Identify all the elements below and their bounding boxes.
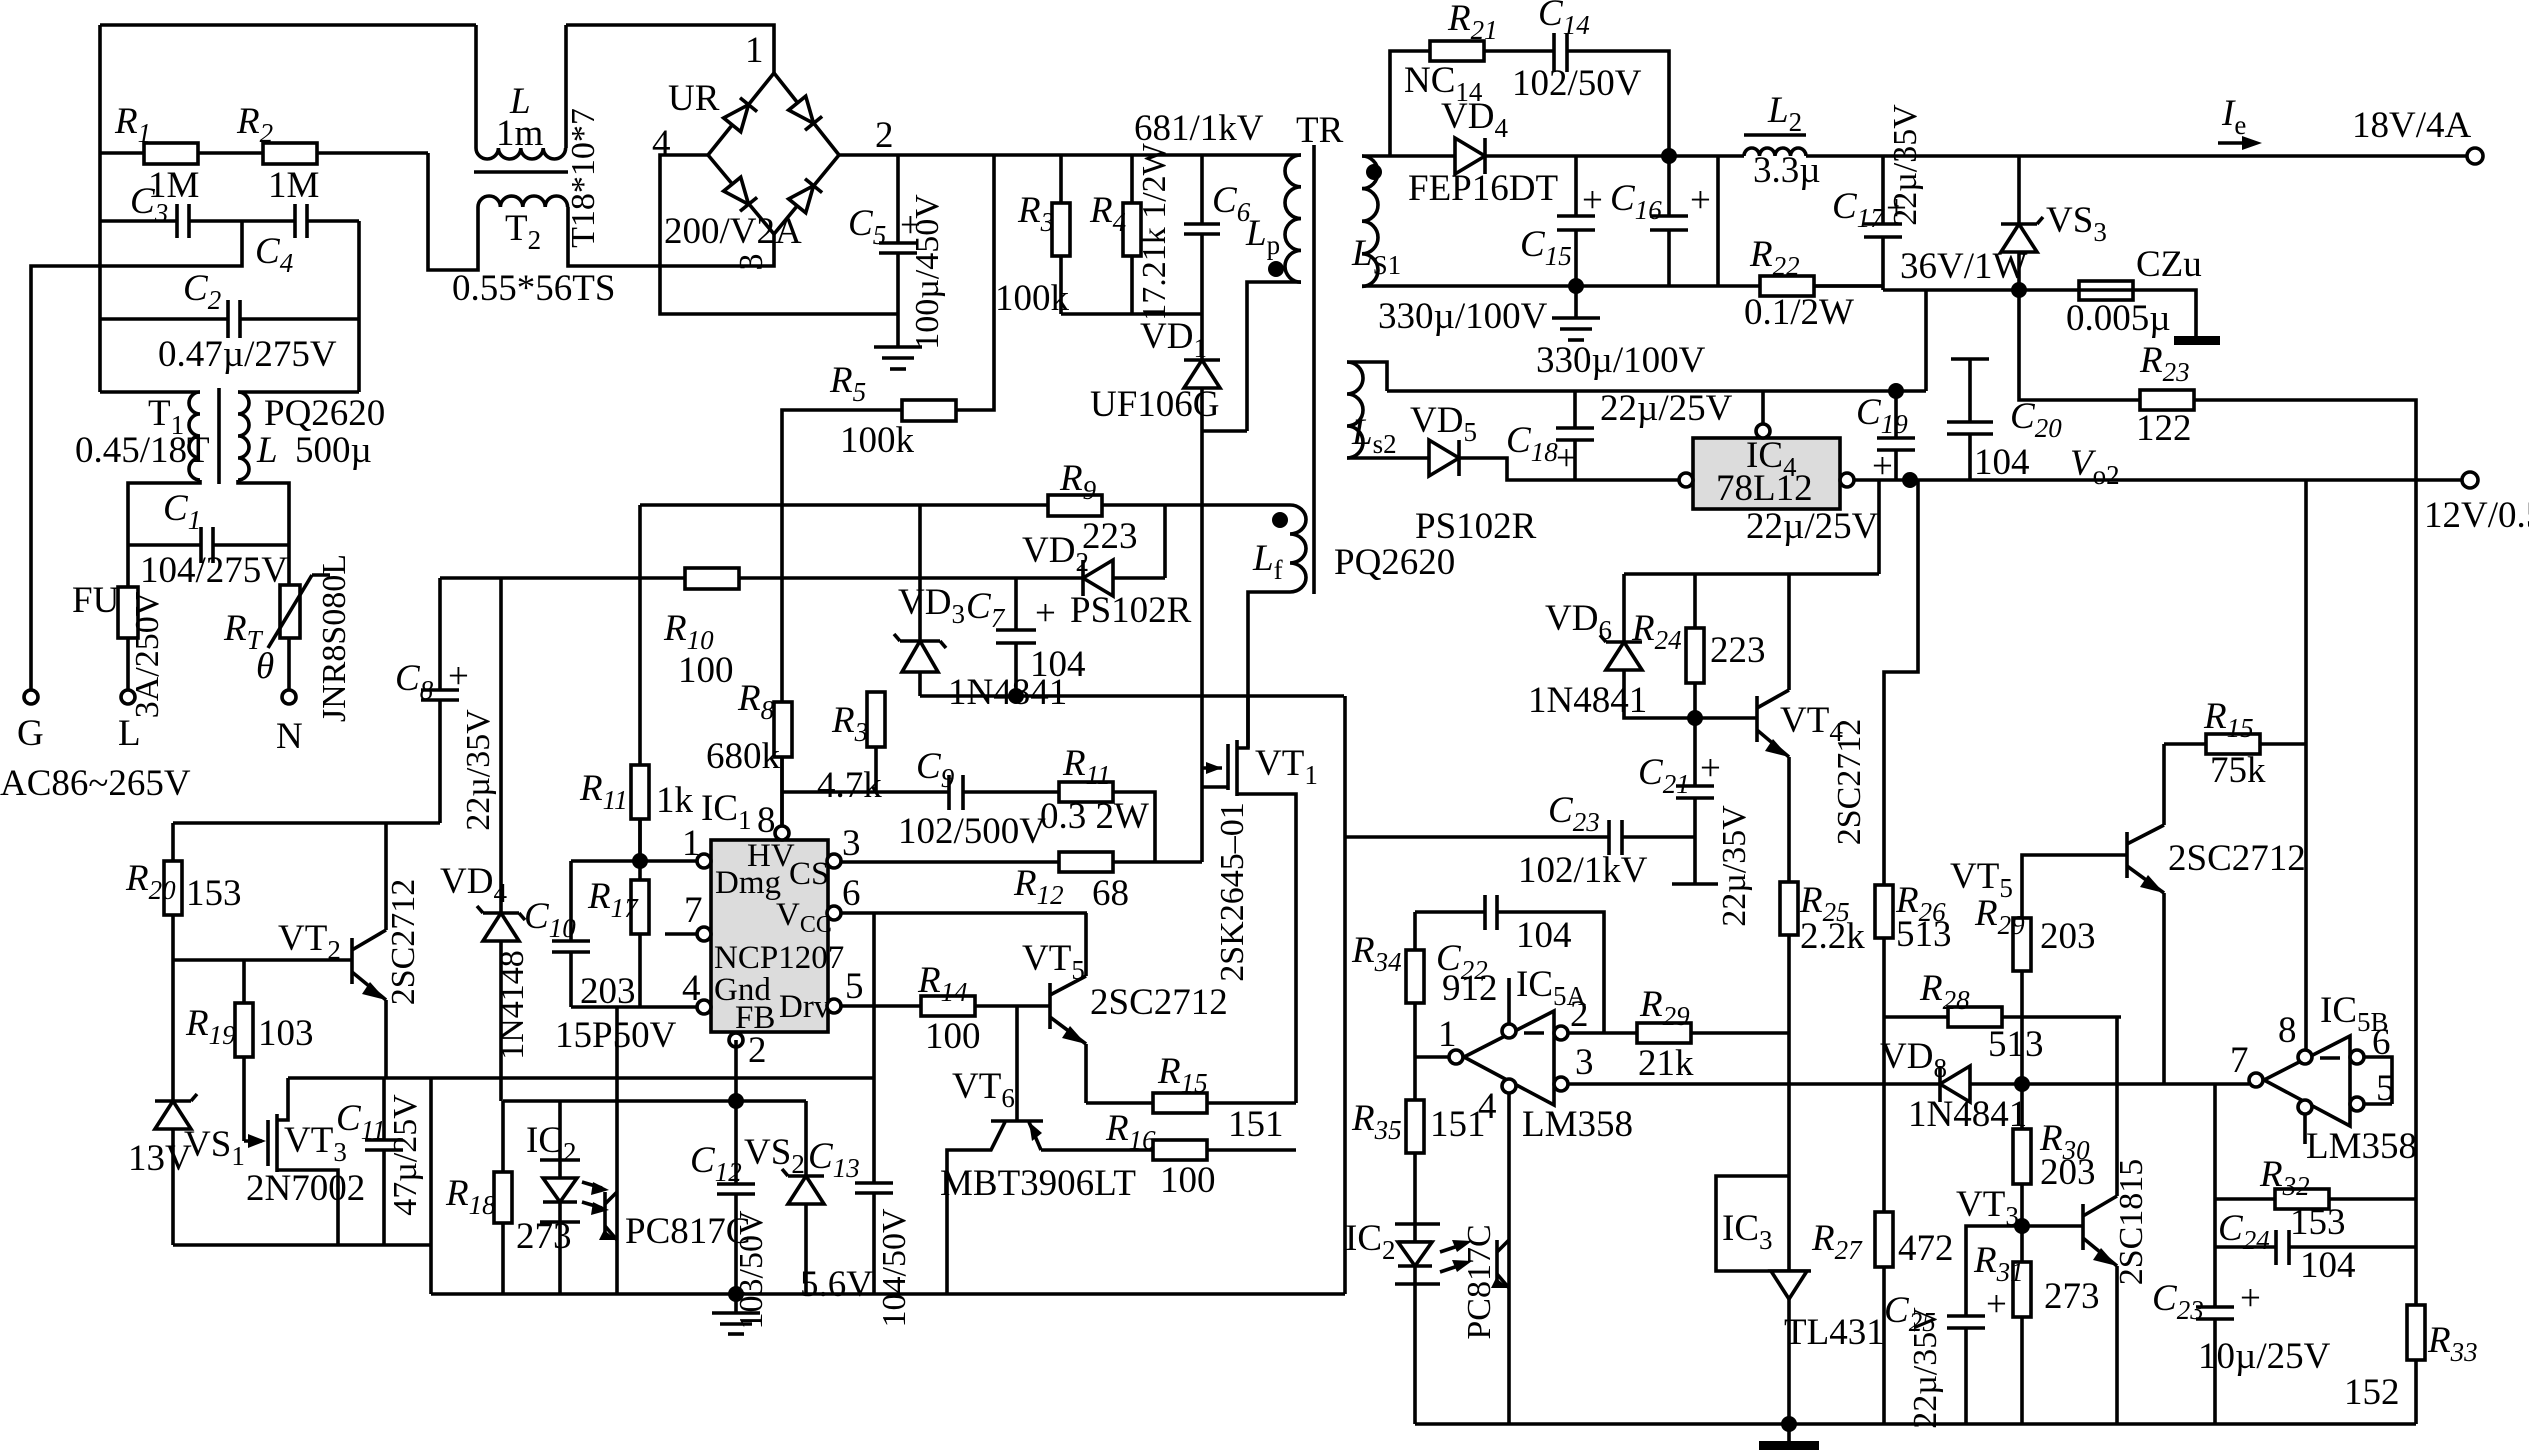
svg-text:104/275V: 104/275V bbox=[140, 550, 288, 591]
resistor R18 273 bbox=[494, 1172, 512, 1223]
svg-text:1: 1 bbox=[682, 823, 701, 864]
svg-text:FU: FU bbox=[72, 580, 119, 621]
svg-text:22µ/35V: 22µ/35V bbox=[1907, 1307, 1944, 1429]
svg-text:102/1kV: 102/1kV bbox=[1518, 850, 1648, 891]
wire Vcc row bbox=[841, 911, 1087, 915]
inductor L (1m) bbox=[476, 148, 566, 159]
inductor L2 bbox=[1744, 133, 1806, 137]
svg-text:2SC1815: 2SC1815 bbox=[2113, 1159, 2150, 1286]
resistor R33 152 bbox=[2407, 1305, 2425, 1360]
thermistor RT bbox=[287, 545, 291, 585]
wire R3 R4 C6 bottom row bbox=[1061, 312, 1202, 316]
svg-text:1M: 1M bbox=[268, 165, 319, 206]
wire L right rise bbox=[564, 25, 568, 148]
wire R26 column from 12V rail bbox=[1884, 480, 1918, 885]
svg-text:1: 1 bbox=[745, 30, 764, 71]
svg-text:θ: θ bbox=[256, 646, 274, 687]
capacitor C4 bbox=[293, 204, 297, 238]
capacitor C1 bbox=[128, 543, 201, 547]
wire VT4 top line bbox=[1624, 572, 1879, 576]
resistor R30 203 bbox=[2020, 1084, 2024, 1129]
wire top rail left bbox=[100, 23, 476, 27]
IC4 78L12 box bbox=[1693, 438, 1840, 509]
diode UR bottom-left bbox=[724, 177, 757, 211]
svg-text:100k: 100k bbox=[995, 278, 1070, 319]
pin 3 bbox=[827, 854, 841, 868]
svg-text:100: 100 bbox=[678, 650, 734, 691]
resistor R15b 75k bbox=[2164, 742, 2206, 746]
svg-text:330µ/100V: 330µ/100V bbox=[1536, 340, 1706, 381]
svg-text:100µ/450V: 100µ/450V bbox=[909, 194, 946, 350]
svg-text:1N4841: 1N4841 bbox=[1528, 680, 1647, 721]
ground right block bbox=[1787, 1424, 1791, 1441]
capacitor C23b 10u/25V bbox=[2196, 1305, 2234, 1309]
wire VD3 C7 bottom row bbox=[920, 694, 1344, 698]
capacitor C22 104 bbox=[1483, 895, 1487, 930]
diode VD4 FEP16DT bbox=[1455, 138, 1485, 174]
svg-text:1k: 1k bbox=[656, 780, 694, 821]
resistor R23 bbox=[2019, 290, 2140, 400]
inductor T2 winding bbox=[478, 196, 568, 207]
capacitor C11 bbox=[382, 1078, 386, 1140]
resistor R8 680k bbox=[774, 702, 792, 757]
resistor R34 912 bbox=[1413, 912, 1417, 950]
svg-text:203: 203 bbox=[2040, 916, 2096, 957]
svg-text:330µ/100V: 330µ/100V bbox=[1378, 296, 1548, 337]
capacitor C25 polarized bbox=[1966, 1226, 2022, 1316]
transistor VT5 2SC2712 bbox=[1048, 983, 1052, 1029]
capacitor C15 polarized bbox=[1574, 156, 1578, 216]
wire bridge node3 bbox=[660, 234, 774, 266]
svg-text:LM358: LM358 bbox=[1522, 1104, 1633, 1145]
svg-text:JNR8S080L: JNR8S080L bbox=[316, 554, 353, 722]
fuse FU bbox=[126, 545, 130, 587]
capacitor C7 bbox=[1014, 578, 1018, 630]
wire VD2 branch vertical bbox=[1163, 505, 1167, 578]
resistor R2 bbox=[263, 143, 317, 164]
resistor R35 151 bbox=[1406, 1100, 1424, 1153]
wire pin6 loop bbox=[2364, 1057, 2392, 1104]
svg-text:2SC2712: 2SC2712 bbox=[1831, 719, 1868, 846]
transistor VT3b 2SC1815 bbox=[2022, 1224, 2083, 1228]
ground left block bbox=[734, 1294, 738, 1313]
svg-text:2SK2645–01: 2SK2645–01 bbox=[1214, 802, 1251, 981]
inductor Lp winding bbox=[1299, 153, 1301, 157]
wire earth branch node bbox=[31, 221, 242, 690]
svg-text:18V/4A: 18V/4A bbox=[2352, 105, 2472, 146]
resistor R9 bbox=[640, 503, 1048, 507]
svg-text:5: 5 bbox=[845, 966, 864, 1007]
wire pin5 row bbox=[2364, 1102, 2392, 1106]
wire lower rail to CZu bbox=[1883, 288, 2079, 292]
svg-text:151: 151 bbox=[1228, 1104, 1284, 1145]
wire pin4 row bbox=[571, 1005, 697, 1009]
svg-text:3.3µ: 3.3µ bbox=[1753, 150, 1821, 191]
wire C-row to C2-row right vertical bbox=[357, 221, 361, 392]
wire down jog to opto bbox=[429, 1078, 433, 1294]
wire 22u line right end up to lower rail bbox=[1924, 290, 1928, 391]
capacitor C6 bbox=[1200, 155, 1204, 224]
svg-text:102/500V: 102/500V bbox=[898, 811, 1046, 852]
svg-text:22µ/25V: 22µ/25V bbox=[1746, 506, 1879, 547]
svg-text:UR: UR bbox=[668, 78, 720, 119]
svg-text:5.6V: 5.6V bbox=[800, 1264, 873, 1305]
svg-text:7: 7 bbox=[2230, 1040, 2249, 1081]
svg-text:22µ/25V: 22µ/25V bbox=[1600, 388, 1733, 429]
ground below C5 bbox=[896, 314, 900, 347]
capacitor C14 bbox=[1552, 33, 1556, 72]
svg-text:203: 203 bbox=[2040, 1152, 2096, 1193]
svg-text:21k: 21k bbox=[1638, 1043, 1694, 1084]
wire VT2 top rail bbox=[173, 821, 440, 825]
wire pin1 to R34 R35 bbox=[1415, 1055, 1449, 1059]
capacitor C24 104 bbox=[2215, 1245, 2276, 1249]
wire pin3 row long bbox=[1568, 1082, 1940, 1086]
svg-text:912: 912 bbox=[1442, 968, 1498, 1009]
svg-text:6: 6 bbox=[842, 873, 861, 914]
svg-text:3: 3 bbox=[733, 254, 770, 271]
svg-text:3: 3 bbox=[1575, 1042, 1594, 1083]
wire R22 branch bbox=[1716, 156, 1720, 286]
svg-text:500µ: 500µ bbox=[295, 430, 372, 471]
inductor Ls2 winding bbox=[1347, 362, 1363, 458]
resistor R3b 4.7k bbox=[874, 692, 878, 696]
svg-text:PC817C: PC817C bbox=[625, 1211, 750, 1252]
svg-text:8: 8 bbox=[2278, 1010, 2297, 1051]
svg-text:AC86~265V: AC86~265V bbox=[0, 763, 191, 804]
svg-text:2: 2 bbox=[875, 115, 894, 156]
svg-text:100k: 100k bbox=[840, 420, 915, 461]
svg-text:PC817C: PC817C bbox=[1461, 1224, 1498, 1339]
capacitor C9 bbox=[947, 775, 951, 810]
resistor R14 100 bbox=[841, 1004, 921, 1008]
svg-text:+: + bbox=[1700, 748, 1721, 789]
diode VD3 zener 1N4841 bbox=[900, 639, 940, 643]
chassis bar CZu bbox=[2174, 336, 2220, 345]
svg-text:FEP16DT: FEP16DT bbox=[1408, 168, 1558, 209]
svg-text:513: 513 bbox=[1988, 1024, 2044, 1065]
transistor VT5b 2SC2712 bbox=[2125, 832, 2129, 878]
pin 6 bbox=[827, 906, 841, 920]
ground secondary bbox=[1574, 286, 1578, 318]
wire R21 C14 loop left bbox=[1390, 51, 1430, 156]
optocoupler IC2 PC817C bbox=[503, 1099, 621, 1103]
diode VS2 zener 5.6V bbox=[804, 1101, 808, 1176]
diode VD4b 1N4148 bbox=[499, 578, 503, 913]
resistor R26 513 bbox=[1875, 885, 1893, 938]
wire Lp bottom jog bbox=[1202, 429, 1247, 433]
transistor VT6 MBT3906LT bbox=[1015, 1006, 1019, 1121]
wire T1 bottom left to C1 bbox=[128, 480, 200, 545]
resistor R16 100 bbox=[1041, 1148, 1153, 1152]
wire bridge node2 to HT rail bbox=[839, 153, 1299, 157]
wire L left drop bbox=[474, 25, 478, 148]
terminal N bbox=[282, 690, 296, 704]
svg-text:+: + bbox=[1556, 438, 1577, 479]
svg-text:1N4841: 1N4841 bbox=[1908, 1094, 2027, 1135]
diode VD2 PS102R bbox=[1081, 560, 1085, 596]
wire pin7 row bbox=[2215, 1082, 2249, 1086]
wire pin8 top bbox=[780, 757, 784, 826]
svg-text:104: 104 bbox=[1974, 442, 2030, 483]
op-amp IC5B LM358 bbox=[2264, 1036, 2350, 1126]
transistor VT4 2SC2712 bbox=[1755, 696, 1759, 742]
wire top rail to bridge bbox=[566, 25, 774, 73]
resistor R11b 0.3 2W bbox=[1059, 782, 1113, 802]
wire bottom rail left block bbox=[431, 1292, 1345, 1296]
wire FB row bbox=[621, 1099, 806, 1103]
svg-text:CS: CS bbox=[789, 856, 829, 892]
svg-text:68: 68 bbox=[1092, 873, 1129, 914]
IC3 TL431 bbox=[1716, 1176, 1789, 1271]
svg-text:0.45/18T: 0.45/18T bbox=[75, 430, 210, 471]
resistor R1 bbox=[100, 151, 144, 155]
wire 18V rail bbox=[1883, 154, 2468, 158]
svg-text:513: 513 bbox=[1896, 914, 1952, 955]
transformer T1 core bbox=[217, 388, 221, 484]
secondary: Ls1 winding bbox=[1362, 156, 1378, 286]
inductor Lf winding bbox=[1290, 505, 1306, 592]
svg-text:36V/1W: 36V/1W bbox=[1900, 246, 2028, 287]
svg-text:152: 152 bbox=[2344, 1372, 2400, 1413]
pin 8 bbox=[775, 826, 789, 840]
wire R9 left vertical to IC1 pin1 row bbox=[638, 505, 642, 862]
svg-text:L: L bbox=[118, 713, 141, 754]
wire pin2 FB column bbox=[734, 1040, 738, 1184]
svg-text:22µ/35V: 22µ/35V bbox=[1887, 104, 1924, 226]
svg-text:100: 100 bbox=[925, 1016, 981, 1057]
svg-text:TR: TR bbox=[1296, 110, 1344, 151]
pin 5 bbox=[827, 999, 841, 1013]
svg-text:UF106G: UF106G bbox=[1090, 384, 1220, 425]
svg-text:PQ2620: PQ2620 bbox=[264, 393, 385, 434]
wire T2 right end to bridge node 4 bbox=[568, 207, 660, 266]
resistor R15 151 bbox=[1086, 1101, 1153, 1105]
capacitor C10 bbox=[569, 861, 573, 941]
fuse CZu bbox=[2079, 281, 2133, 300]
svg-text:7: 7 bbox=[684, 890, 703, 931]
svg-text:104: 104 bbox=[1516, 915, 1572, 956]
wire VT block bottom rail bbox=[173, 1243, 431, 1247]
diode UR top-left bbox=[724, 98, 757, 132]
svg-text:472: 472 bbox=[1898, 1228, 1954, 1269]
svg-text:2N7002: 2N7002 bbox=[246, 1168, 365, 1209]
svg-text:+: + bbox=[1582, 180, 1603, 221]
resistor R29 21k bbox=[1568, 1031, 1637, 1035]
wire T1 bottom right to C1 right bbox=[238, 480, 289, 545]
optocoupler IC2b PC817C bbox=[1413, 1224, 1417, 1424]
svg-text:2: 2 bbox=[1570, 994, 1589, 1035]
wire pin4 down bbox=[1507, 1093, 1511, 1424]
wire IC4 out to 12V bbox=[1854, 478, 2462, 482]
diode VS1 zener 13V bbox=[155, 1099, 191, 1103]
svg-text:104: 104 bbox=[1030, 644, 1086, 685]
terminal 18V bbox=[2467, 148, 2483, 164]
svg-text:N: N bbox=[276, 716, 303, 757]
svg-text:200/V2A: 200/V2A bbox=[664, 211, 802, 252]
svg-text:122: 122 bbox=[2136, 408, 2192, 449]
svg-text:47µ/25V: 47µ/25V bbox=[387, 1094, 424, 1216]
resistor R4 bbox=[1130, 155, 1134, 203]
svg-text:680k: 680k bbox=[706, 736, 781, 777]
capacitor C13 bbox=[872, 913, 876, 1183]
wire rail to L2 bbox=[1669, 154, 1744, 158]
svg-text:0.47µ/275V: 0.47µ/275V bbox=[158, 334, 337, 375]
svg-text:22µ/35V: 22µ/35V bbox=[1716, 805, 1753, 927]
svg-text:0.55*56TS: 0.55*56TS bbox=[452, 268, 615, 309]
svg-text:PQ2620: PQ2620 bbox=[1334, 542, 1455, 583]
T2 core bar bbox=[474, 170, 568, 174]
svg-text:151: 151 bbox=[1430, 1104, 1486, 1145]
svg-text:4: 4 bbox=[682, 968, 701, 1009]
wire left vertical main bbox=[98, 25, 102, 392]
resistor R3 100k bbox=[1059, 155, 1063, 203]
wire 22u25V top line bbox=[1387, 389, 1926, 393]
capacitor C18 polarized bbox=[1573, 391, 1577, 428]
svg-text:10µ/25V: 10µ/25V bbox=[2198, 1336, 2331, 1377]
resistor R5 bbox=[956, 155, 994, 410]
capacitor C21 polarized bbox=[1676, 784, 1714, 788]
phototransistor IC2b bbox=[1495, 1240, 1499, 1286]
resistor R31 273 bbox=[2020, 1226, 2024, 1262]
wire pin8 column bbox=[2304, 480, 2308, 1050]
svg-text:+: + bbox=[448, 656, 469, 697]
svg-text:75k: 75k bbox=[2210, 750, 2266, 791]
node dot rail C14 bbox=[1661, 148, 1677, 164]
svg-text:+: + bbox=[1986, 1284, 2007, 1325]
svg-text:G: G bbox=[17, 713, 44, 754]
transformer T1 left winding bbox=[189, 392, 200, 480]
resistor R19 103 bbox=[242, 960, 246, 1003]
capacitor C17 polarized bbox=[1881, 156, 1885, 224]
diode VD1 UF106G bbox=[1200, 314, 1204, 360]
svg-text:100: 100 bbox=[1160, 1160, 1216, 1201]
svg-text:8: 8 bbox=[757, 800, 776, 841]
capacitor C12 bbox=[717, 1182, 755, 1186]
diode UR bottom-right bbox=[789, 179, 822, 213]
svg-text:13V: 13V bbox=[128, 1138, 192, 1179]
resistor R29b 203 bbox=[2022, 855, 2127, 918]
pin 1 bbox=[697, 854, 711, 868]
svg-text:3: 3 bbox=[842, 823, 861, 864]
wire bottom rail right block bbox=[1415, 1422, 2416, 1426]
svg-text:L: L bbox=[256, 430, 278, 471]
svg-text:+: + bbox=[1872, 446, 1893, 487]
svg-text:17.21k 1/2W: 17.21k 1/2W bbox=[1136, 142, 1173, 320]
wire Ls1 top to VD4 bbox=[1362, 154, 1455, 158]
svg-text:0.005µ: 0.005µ bbox=[2066, 298, 2171, 339]
wire 4.7k C9 row bbox=[782, 790, 949, 794]
resistor R27 472 bbox=[1875, 1212, 1893, 1267]
transformer T1 right winding bbox=[238, 392, 249, 480]
bar C21 bottom bbox=[1672, 882, 1718, 886]
svg-text:2SC2712: 2SC2712 bbox=[1090, 982, 1228, 1023]
wire C23 takeoff bbox=[1343, 696, 1347, 1294]
svg-text:104/50V: 104/50V bbox=[876, 1208, 913, 1327]
wire emitter C11 row bbox=[288, 1076, 874, 1080]
svg-text:LM358: LM358 bbox=[2306, 1126, 2417, 1167]
pin 4 bbox=[697, 1000, 711, 1014]
diode VD5 PS102R bbox=[1347, 456, 1429, 460]
pin 2 bbox=[729, 1033, 743, 1047]
capacitor C16 polarized bbox=[1650, 214, 1688, 218]
bridge rectifier UR diamond bbox=[708, 73, 839, 234]
capacitor C19 polarized bbox=[1888, 383, 1904, 399]
svg-text:2: 2 bbox=[748, 1030, 767, 1071]
svg-text:PS102R: PS102R bbox=[1070, 590, 1192, 631]
svg-text:CZu: CZu bbox=[2136, 244, 2202, 285]
svg-text:MBT3906LT: MBT3906LT bbox=[940, 1163, 1136, 1204]
svg-text:1m: 1m bbox=[496, 113, 544, 154]
svg-text:+: + bbox=[1690, 180, 1711, 221]
svg-text:Drv: Drv bbox=[779, 989, 831, 1025]
diode VD6 1N4841 bbox=[1622, 574, 1626, 642]
svg-text:153: 153 bbox=[2290, 1202, 2346, 1243]
svg-text:273: 273 bbox=[2044, 1276, 2100, 1317]
svg-text:0.3 2W: 0.3 2W bbox=[1040, 796, 1149, 837]
svg-text:4.7k: 4.7k bbox=[817, 765, 882, 806]
resistor R17 203 bbox=[631, 880, 649, 934]
terminal L bbox=[121, 690, 135, 704]
svg-text:681/1kV: 681/1kV bbox=[1134, 108, 1264, 149]
capacitor C5 polarized bbox=[896, 155, 900, 243]
svg-text:12V/0.5A: 12V/0.5A bbox=[2424, 495, 2529, 536]
wire C8 column bbox=[438, 578, 442, 690]
diode VS3 zener bbox=[2017, 156, 2021, 224]
diode VD8 1N4841 bbox=[1938, 1066, 1942, 1102]
svg-text:102/50V: 102/50V bbox=[1512, 63, 1642, 104]
terminal G bbox=[24, 690, 38, 704]
wire secondary lower rail bbox=[1362, 284, 1883, 288]
phototransistor IC2 bbox=[615, 1101, 619, 1294]
LED IC2 bbox=[558, 1101, 562, 1294]
resistor R12 68 bbox=[840, 860, 1059, 864]
svg-text:2SC2712: 2SC2712 bbox=[385, 879, 422, 1006]
svg-text:223: 223 bbox=[1710, 630, 1766, 671]
svg-text:+: + bbox=[2240, 1278, 2261, 1319]
svg-text:TL431: TL431 bbox=[1784, 1312, 1885, 1353]
svg-text:2.2k: 2.2k bbox=[1800, 916, 1865, 957]
IC1 NCP1207 box bbox=[711, 840, 828, 1032]
wire VD3 column junction bbox=[918, 505, 922, 696]
capacitor C3 bbox=[100, 219, 177, 223]
transformer TR core bbox=[1312, 145, 1316, 594]
transistor VT2 2SC2712 bbox=[173, 958, 352, 962]
svg-text:0.1/2W: 0.1/2W bbox=[1744, 292, 1854, 333]
wire left column from pin7 row bbox=[2213, 1084, 2217, 1307]
resistor R10 bbox=[440, 576, 685, 580]
resistor R20 153 bbox=[171, 823, 175, 861]
node Lf phase dot bbox=[1272, 512, 1288, 528]
node dot C7 bottom bbox=[1008, 688, 1024, 704]
capacitor C20 bbox=[1951, 357, 1989, 361]
node dot C15 ground bbox=[1568, 278, 1584, 294]
svg-text:22µ/35V: 22µ/35V bbox=[460, 709, 497, 831]
resistor R24 223 bbox=[1693, 574, 1697, 628]
resistor R28 513 bbox=[1884, 1015, 1948, 1019]
transformer T1 top wires bbox=[100, 390, 200, 394]
resistor R21 bbox=[1430, 41, 1484, 61]
svg-text:+: + bbox=[1035, 593, 1056, 634]
mosfet VT3 2N7002 bbox=[244, 1139, 262, 1143]
pin 7 bbox=[697, 927, 711, 941]
diode UR top-right bbox=[789, 96, 822, 130]
resistor R11 1k bbox=[631, 765, 649, 819]
mosfet VT1 2SK2645-01 bbox=[1200, 696, 1204, 862]
capacitor C23 102/1kV bbox=[1344, 835, 1609, 839]
svg-text:NCP1207: NCP1207 bbox=[714, 940, 844, 976]
wire T2 left end to R2 node bbox=[428, 153, 478, 270]
